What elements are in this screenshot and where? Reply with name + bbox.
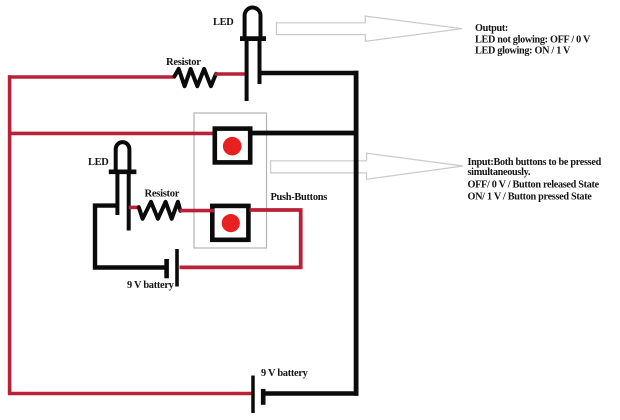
battery B2 <box>253 376 263 414</box>
wire black S1 to right rail <box>251 131 358 136</box>
push-button S1 <box>215 129 250 163</box>
push-button enclosure box <box>194 113 267 248</box>
push-button S2 <box>212 206 248 240</box>
svg-text:Resistor: Resistor <box>166 57 201 68</box>
wire red R1 to LED1 <box>215 72 249 76</box>
svg-text:Push-Buttons: Push-Buttons <box>271 192 328 203</box>
wire red S2 loop to battery B1 <box>180 210 301 267</box>
svg-text:LED not glowing: OFF / 0 V: LED not glowing: OFF / 0 V <box>475 35 591 46</box>
svg-text:Output:: Output: <box>475 23 508 34</box>
svg-text:OFF/ 0 V / Button released Sta: OFF/ 0 V / Button released State <box>468 179 600 190</box>
svg-text:LED: LED <box>213 17 233 28</box>
wire red bottom horizontal <box>8 392 252 396</box>
input callout arrow <box>271 153 463 179</box>
LED D2 <box>109 142 137 230</box>
wire red top horizontal <box>8 75 176 79</box>
output callout arrow <box>276 16 462 41</box>
svg-text:9 V battery: 9 V battery <box>127 280 175 291</box>
svg-text:ON/ 1 V / Button pressed State: ON/ 1 V / Button pressed State <box>468 191 593 202</box>
wire red R2 to S2 <box>180 209 215 213</box>
svg-text:LED glowing: ON / 1 V: LED glowing: ON / 1 V <box>475 45 571 56</box>
svg-text:simultaneously.: simultaneously. <box>468 167 531 178</box>
svg-text:Resistor: Resistor <box>145 189 180 200</box>
svg-text:9 V battery: 9 V battery <box>261 368 309 379</box>
resistor R2 <box>139 202 181 219</box>
svg-text:Input:Both buttons to be press: Input:Both buttons to be pressed <box>468 157 602 168</box>
wire black bottom to battery B2 <box>265 391 359 396</box>
wire red LED2 to R2 <box>129 206 140 210</box>
wire black right vertical rail <box>354 71 359 396</box>
wire red row2 to push-button S1 <box>8 132 215 136</box>
wire black LED1 to right rail <box>260 71 359 76</box>
LED D1 <box>240 8 266 101</box>
output annotation text <box>475 23 591 56</box>
input annotation text <box>468 157 602 203</box>
wire black battery B1 to LED2 <box>95 206 165 268</box>
resistor R1 <box>175 69 217 86</box>
wire red left vertical <box>8 75 12 395</box>
battery B1 <box>167 249 177 287</box>
svg-text:LED: LED <box>88 157 108 168</box>
